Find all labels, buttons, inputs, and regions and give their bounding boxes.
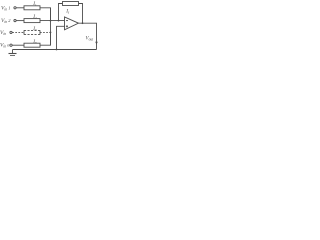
svg-text:I1: I1 — [32, 1, 37, 7]
svg-text:I2: I2 — [32, 14, 37, 20]
terminal Vin1 — [14, 7, 16, 9]
wire ground rail — [13, 49, 97, 51]
svg-text:Vin n: Vin n — [0, 43, 10, 49]
wire input bus — [50, 8, 52, 45]
label R1 — [32, 1, 37, 7]
resistor Rn — [24, 43, 40, 47]
svg-text:I3: I3 — [32, 26, 37, 32]
wire R1 to bus — [40, 8, 51, 21]
label R2 — [32, 14, 37, 20]
node rail plus-input junction — [56, 49, 58, 51]
node feedback tap — [58, 20, 60, 22]
dashed wire R3 to bus — [40, 31, 51, 33]
label Rf — [65, 9, 70, 15]
label Rn — [32, 39, 37, 45]
svg-text:Vin 2: Vin 2 — [1, 18, 11, 24]
svg-text:Vin 1: Vin 1 — [1, 5, 10, 11]
svg-text:Vin: Vin — [0, 30, 6, 36]
feedback wire down to output — [79, 4, 83, 24]
wire Vin2 to R2 — [16, 20, 24, 22]
input label Vin3 — [0, 30, 6, 36]
input label Vinn — [0, 43, 10, 49]
op-amp plus sign — [66, 25, 68, 27]
op-amp minus sign — [66, 20, 68, 22]
resistor R3 dashed — [24, 30, 40, 34]
wire op-amp output — [79, 23, 97, 49]
node feedback output junction — [82, 22, 84, 24]
terminal Vin2 — [14, 20, 16, 22]
wire Rn to bus — [40, 32, 51, 45]
node summing junction — [50, 20, 52, 22]
label R3 — [32, 26, 37, 32]
input label Vin2 — [1, 18, 11, 24]
resistor R2 — [24, 19, 40, 23]
node R3 bus junction — [50, 32, 52, 34]
svg-text:In: In — [32, 39, 37, 45]
resistor Rf — [63, 2, 79, 6]
wire R2 to op-amp inverting input — [40, 20, 65, 22]
wire non-inverting input to ground rail — [57, 26, 65, 49]
feedback wire up from summing node — [59, 4, 63, 21]
svg-text:Vout: Vout — [86, 37, 95, 42]
wire Vinn to Rn — [12, 44, 24, 46]
op-amp U1 — [65, 17, 79, 30]
resistor R1 — [24, 6, 40, 10]
svg-text:If: If — [65, 9, 70, 15]
terminal Vinn — [10, 44, 12, 46]
arrow Vout down — [95, 42, 98, 45]
input label Vin1 — [1, 5, 10, 11]
dashed wire Vin3 to R3 — [12, 31, 24, 33]
wire Vin1 to R1 — [16, 7, 24, 9]
label Vout — [86, 37, 95, 42]
ground — [12, 50, 14, 54]
terminal Vin3 — [10, 31, 12, 33]
